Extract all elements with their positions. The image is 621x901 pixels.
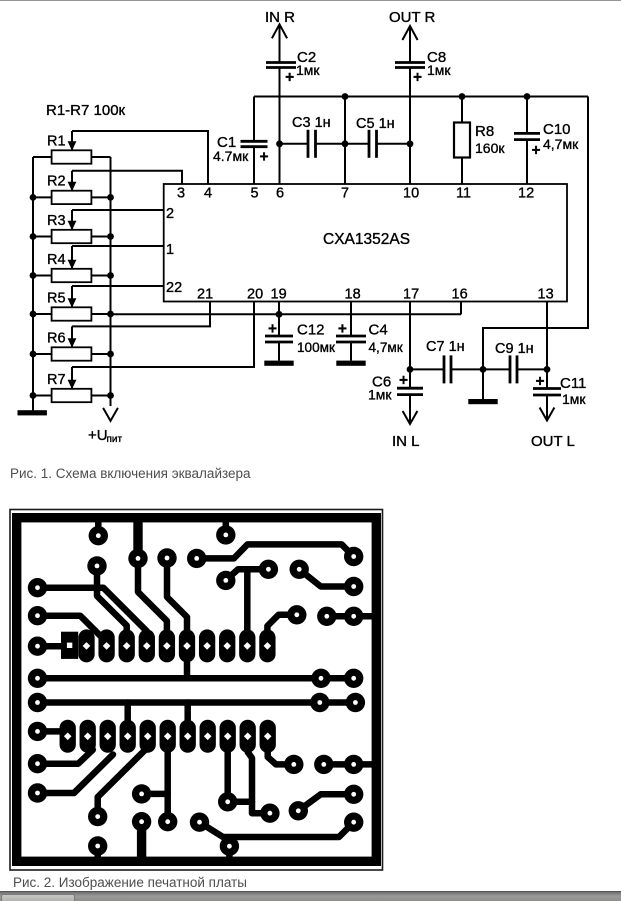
svg-text:17: 17 [403,287,419,303]
svg-text:+U: +U [88,427,108,444]
svg-text:+: + [531,142,540,159]
svg-text:160к: 160к [475,140,505,156]
svg-text:C5 1н: C5 1н [356,116,395,132]
svg-text:11: 11 [456,186,471,202]
svg-text:C4: C4 [369,322,388,339]
svg-text:R6: R6 [47,330,66,346]
svg-text:+: + [338,320,347,337]
svg-text:4,7мк: 4,7мк [543,136,579,152]
svg-text:4,7мк: 4,7мк [369,340,404,355]
svg-text:R1-R7 100к: R1-R7 100к [46,102,126,119]
svg-text:1мк: 1мк [368,387,392,403]
svg-text:пит: пит [107,434,123,445]
svg-text:R5: R5 [47,290,66,306]
svg-text:20: 20 [247,287,263,303]
svg-text:7: 7 [341,186,349,202]
svg-text:13: 13 [538,287,554,303]
svg-text:1мк: 1мк [427,62,451,78]
svg-text:+: + [535,373,544,390]
svg-text:OUT R: OUT R [389,9,436,26]
svg-text:1мк: 1мк [562,391,586,407]
svg-text:+: + [268,320,277,337]
svg-text:4.7мк: 4.7мк [213,148,249,164]
svg-text:12: 12 [518,186,534,202]
svg-text:R2: R2 [47,174,66,190]
svg-text:R7: R7 [47,372,66,388]
svg-text:R3: R3 [47,213,66,229]
svg-text:21: 21 [197,287,213,303]
svg-text:C3 1н: C3 1н [292,115,331,131]
svg-text:5: 5 [251,186,259,202]
svg-text:C11: C11 [560,375,586,392]
svg-text:+: + [399,372,408,389]
svg-text:C12: C12 [297,322,325,339]
svg-text:1: 1 [166,242,174,258]
svg-text:100мк: 100мк [297,340,336,355]
svg-text:IN L: IN L [392,433,420,450]
svg-text:R1: R1 [47,133,66,149]
svg-text:CXA1352AS: CXA1352AS [323,231,410,248]
svg-text:C9 1н: C9 1н [495,341,534,357]
svg-text:4: 4 [204,186,212,202]
svg-text:2: 2 [166,206,174,222]
svg-text:C7 1н: C7 1н [426,339,465,355]
svg-text:1мк: 1мк [296,62,320,78]
svg-text:19: 19 [271,287,287,303]
svg-text:3: 3 [177,186,185,202]
svg-text:10: 10 [403,186,419,202]
svg-text:18: 18 [345,287,361,303]
svg-text:+: + [285,69,294,86]
svg-text:6: 6 [276,186,284,202]
svg-text:+: + [259,148,268,165]
svg-text:22: 22 [166,280,182,296]
svg-text:R4: R4 [47,252,66,268]
svg-text:R8: R8 [475,123,494,140]
svg-text:16: 16 [452,287,468,303]
svg-text:IN R: IN R [265,9,295,26]
svg-text:+: + [413,69,422,86]
svg-text:OUT L: OUT L [531,433,575,450]
